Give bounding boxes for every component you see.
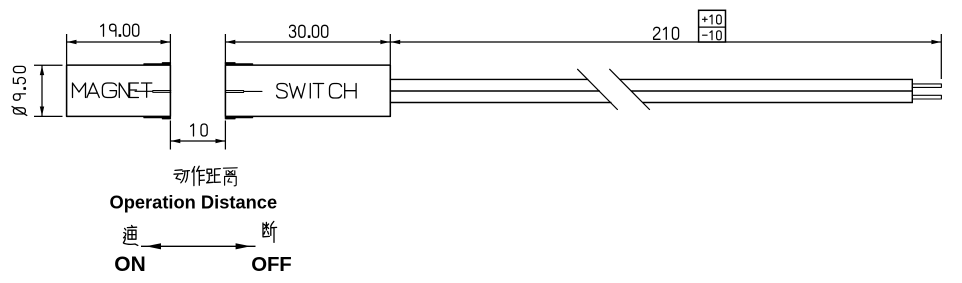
chinese label dong (move) [174,170,189,183]
cable wires left of break [390,79,611,102]
dim 210 line [390,41,941,43]
label MAGNET [73,83,152,98]
svg-text:Operation Distance: Operation Distance [110,191,278,212]
chinese label ju (distance) [207,169,221,183]
dim 210 text [654,27,679,39]
cable end [911,79,913,102]
chinese label tong (on) [123,225,137,245]
chinese label li (apart) [223,168,237,186]
dim O9.50 line [41,65,43,116]
tolerance box [699,10,726,42]
magnet end cap top [144,63,170,64]
dim 10 extension lines [170,121,225,150]
magnet end cap bottom [144,118,170,119]
magnet reed lead [135,91,171,93]
dim 30.00 arrows [226,40,390,44]
dim 19.00 line [67,41,171,43]
stripped wire lower [912,95,941,99]
tolerance -10 [703,31,722,40]
dim 19.00 text [101,24,139,36]
switch end cap bottom [225,118,252,119]
dim 10 line [170,140,225,142]
dim 30.00 line [225,41,390,43]
stripped wire upper [912,84,941,88]
dim 19.00 extension lines [67,34,171,65]
dim 19.00 arrows [67,40,170,44]
dim O9.50 arrows [40,66,44,116]
chinese label zuo (action) [192,166,204,185]
cable break symbol [578,69,650,109]
dim O9.50 text [12,66,27,115]
dim 10 text [191,124,207,136]
label SWITCH [277,84,357,99]
cable wires right of break [620,79,913,102]
svg-text:OFF: OFF [251,254,291,276]
dim 30.00 extension lines [225,34,390,65]
switch end cap top [225,63,252,64]
switch reed lead [225,91,262,93]
switch body [225,65,390,116]
svg-text:ON: ON [114,253,146,276]
on-off arrow [141,243,256,249]
chinese label duan (off) [263,221,277,242]
tolerance +10 [703,15,722,24]
dim 10 arrows [171,139,225,143]
dim 210 arrows [391,40,941,44]
dim 210 extension line right [940,34,942,79]
dim 30.00 text [290,25,328,37]
magnet body [67,65,171,116]
dim O9.50 extension lines [34,65,63,116]
